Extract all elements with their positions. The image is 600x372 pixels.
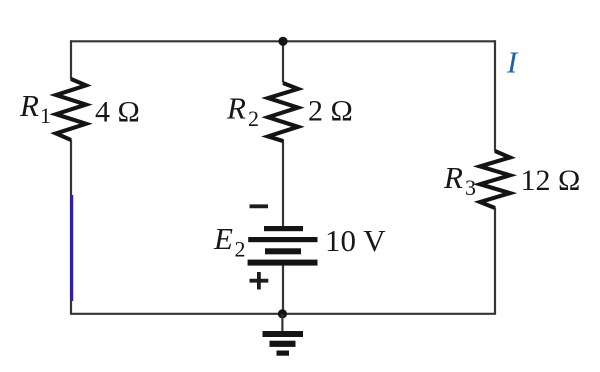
svg-text:12 Ω: 12 Ω	[521, 164, 581, 197]
ground stem wire	[281, 314, 283, 332]
ground bar 3 (bottom)	[277, 351, 290, 356]
left wire (bottom segment below R1)	[70, 140, 72, 315]
battery E2 minus polarity mark	[250, 204, 269, 208]
svg-text:E: E	[213, 221, 233, 256]
right wire (bottom segment below R3)	[494, 208, 496, 315]
svg-text:2: 2	[235, 237, 246, 262]
svg-text:I: I	[506, 45, 519, 80]
node A junction dot (top)	[278, 37, 287, 46]
resistor R2	[268, 83, 298, 141]
bottom wire	[71, 313, 495, 315]
ground bar 2 (middle)	[270, 341, 296, 347]
svg-text:R: R	[443, 160, 463, 195]
blue highlighted wire segment on left branch	[70, 195, 73, 301]
svg-text:R: R	[19, 88, 39, 123]
resistor R3 label	[443, 160, 476, 200]
battery E2 plate 2 (long)	[248, 237, 317, 242]
battery E2 plate 4 (long, bottom)	[248, 260, 318, 266]
node B junction dot (bottom)	[278, 309, 287, 318]
battery E2 plate 3 (short)	[265, 248, 301, 254]
svg-text:R: R	[226, 91, 246, 126]
battery E2 value 10 V	[325, 223, 386, 258]
middle branch wire (battery to bottom node)	[282, 263, 284, 315]
battery E2 plate 1 (short, top)	[264, 226, 303, 231]
ground bar 1 (top)	[263, 331, 304, 337]
middle branch wire (R2 to battery)	[282, 140, 284, 229]
resistor R3	[480, 151, 510, 208]
battery E2 label	[213, 221, 246, 262]
left wire (top segment above R1)	[70, 40, 72, 79]
svg-text:2 Ω: 2 Ω	[308, 95, 353, 128]
middle branch wire (node to R2)	[282, 41, 284, 83]
resistor R3 value 12 ohm	[521, 164, 581, 197]
top wire	[71, 40, 495, 42]
resistor R1	[56, 79, 86, 140]
battery E2 plus polarity mark	[250, 272, 269, 290]
svg-text:1: 1	[40, 103, 51, 128]
svg-text:10 V: 10 V	[325, 223, 386, 258]
resistor R1 value 4 ohm	[95, 95, 140, 128]
svg-text:4 Ω: 4 Ω	[95, 95, 140, 128]
resistor R2 value 2 ohm	[308, 95, 353, 128]
right wire (top segment above R3)	[494, 40, 496, 151]
resistor R1 label	[19, 88, 51, 128]
svg-text:2: 2	[248, 106, 259, 131]
svg-text:3: 3	[465, 175, 476, 200]
resistor R2 label	[226, 91, 259, 131]
current label I (blue)	[506, 45, 519, 80]
